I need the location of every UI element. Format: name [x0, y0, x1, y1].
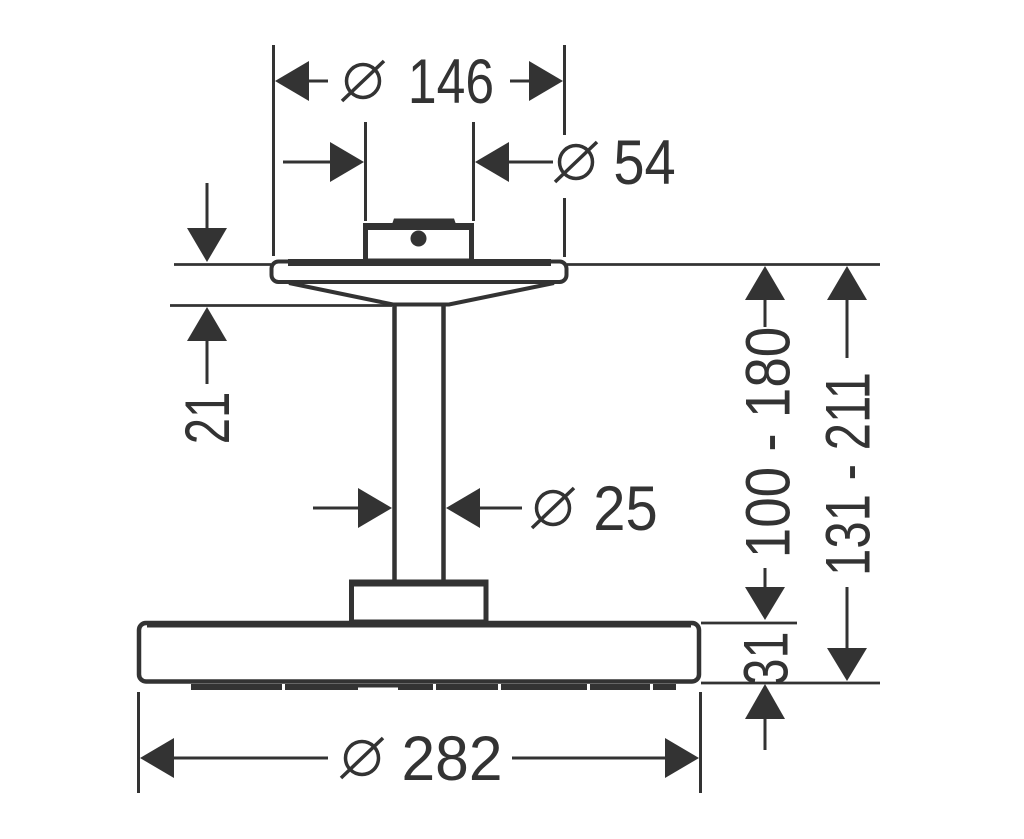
dimension Ø25 arrow left [313, 488, 392, 528]
dimension Ø146 label [342, 47, 494, 117]
reference line: cone bottom left [170, 304, 392, 307]
dimension Ø25 arrow right [446, 488, 522, 528]
shower head slab (Ø282) [139, 623, 699, 682]
svg-text:282: 282 [402, 724, 503, 794]
dimension Ø146 extension line right [563, 45, 566, 257]
reference line: plate top left [174, 263, 271, 266]
ceiling flange plate [272, 262, 567, 283]
dimension Ø146 arrow right [510, 61, 563, 101]
dimension Ø282 arrow right [512, 738, 699, 778]
dimension Ø54 arrow left [283, 142, 364, 182]
dimension 31 lower arrow [745, 684, 785, 750]
reference line: plate top right [567, 263, 880, 266]
dimension 21 lower arrow [187, 307, 227, 384]
dimension 100-180 lower arrow [745, 568, 785, 620]
dimension Ø282 extension line right [699, 692, 702, 793]
screw dot on connector [411, 231, 427, 247]
dimension 100-180 upper arrow [745, 266, 785, 327]
reference line: slab top right [701, 622, 797, 625]
spray nozzle band [191, 684, 676, 692]
svg-text:146: 146 [408, 47, 494, 117]
dimension Ø282 extension line left [137, 692, 140, 793]
dimension Ø282 arrow left [140, 738, 328, 778]
dimension 131-211 lower arrow [827, 587, 867, 681]
svg-text:25: 25 [593, 473, 657, 544]
dimension Ø146 extension line left [272, 45, 275, 256]
dimension Ø54 extension line left [364, 122, 367, 221]
dimension Ø282 label [341, 724, 502, 794]
dimension Ø54 arrow right [475, 142, 553, 182]
svg-text:131 - 211: 131 - 211 [813, 372, 883, 576]
svg-text:54: 54 [613, 127, 675, 198]
svg-text:100 - 180: 100 - 180 [733, 327, 803, 559]
svg-text:31: 31 [730, 632, 801, 686]
dimension Ø54 label [555, 127, 676, 198]
dimension Ø146 arrow left [275, 61, 328, 101]
dimension 21 upper arrow [187, 183, 227, 262]
svg-text:21: 21 [172, 392, 242, 445]
pipe (Ø25) [395, 304, 444, 582]
reference line: slab bottom right [701, 682, 880, 685]
dimension 131-211 upper arrow [827, 266, 867, 358]
dimension Ø54 extension line right [472, 122, 475, 221]
top connector box (Ø54) [363, 219, 474, 262]
cone below flange [289, 283, 554, 305]
dimension Ø25 label [532, 473, 658, 544]
lower connector box [349, 582, 488, 622]
